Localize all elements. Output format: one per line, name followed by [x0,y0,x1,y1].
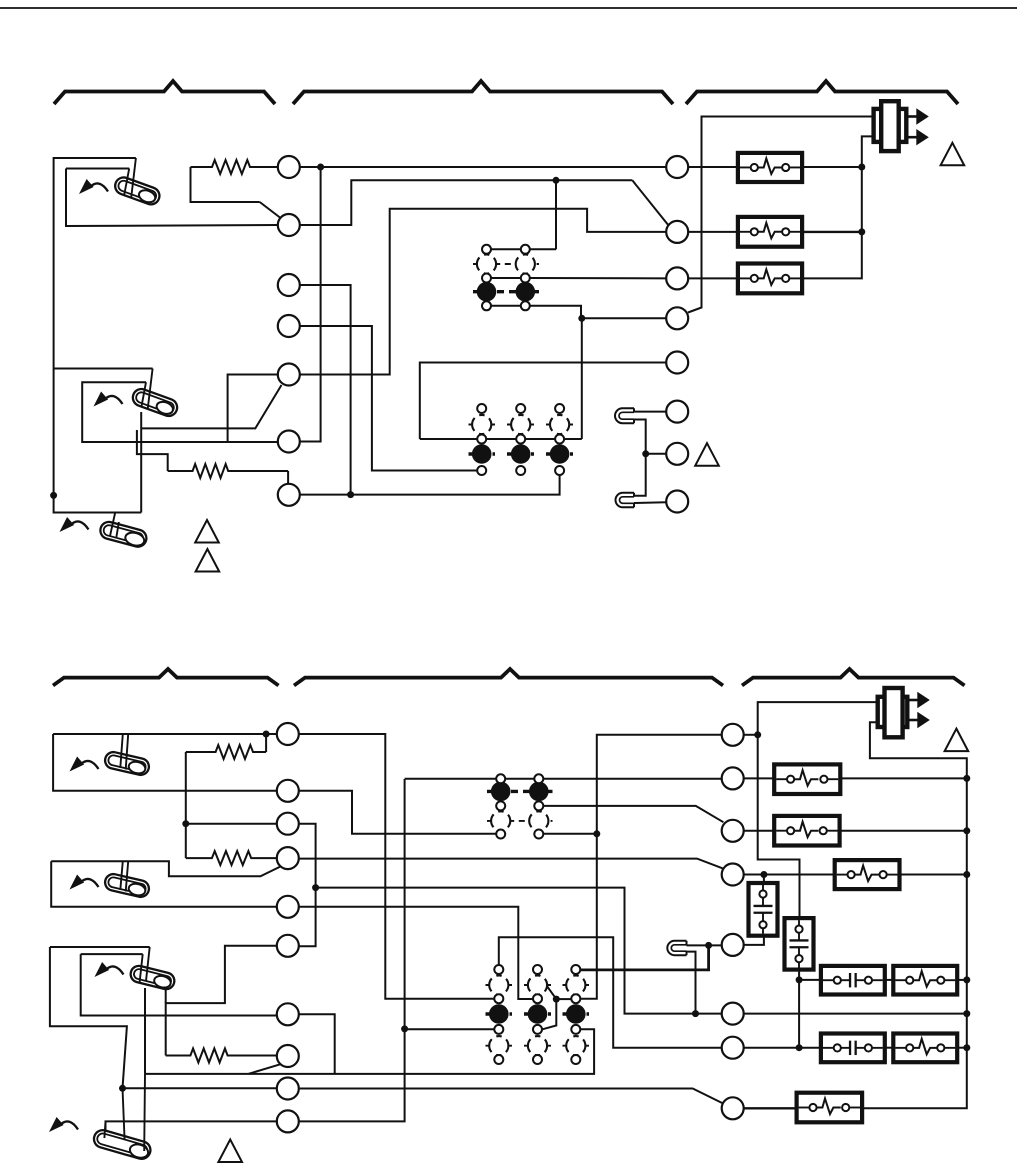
contact matrix M3 top row line + feed to terminal BR2 [405,778,722,780]
wire: dot drop to row2 dot [798,980,800,1048]
wire: switch2 inner box [82,382,278,442]
wire: riser to contact matrix1 top pins [555,180,557,249]
wire: blade diagonal into terminal R2 [632,180,669,226]
relay box B (bottom diagram) [893,966,957,995]
arrow: switch2 rotation [94,392,123,407]
wire: V1 bottom to terminal BR5 [744,936,764,945]
wire: terminal L1 row to terminal R1 [300,166,666,168]
terminal circle R8 (top diagram, x=677) [666,491,688,513]
wire: relay1 to bus [840,777,967,779]
wire: dot to matrix row5 left pin [405,1028,495,1030]
terminal circle R5 (top diagram, x=677) [666,352,688,374]
wire: switch2 top edge [54,368,153,370]
triangle note marker 4 (top diagram) [695,443,719,466]
terminal circle R3 (top diagram, x=677) [666,267,688,289]
terminal circle BR2 (bottom diagram, x=733) [722,767,744,789]
brace: thermostat section (top diagram) [54,81,275,104]
relay box 2 (bottom diagram) [774,816,839,846]
wire: W run continues to blade [556,179,632,181]
wire: dot down-right into switch3 [54,495,142,512]
terminal circle R1 (top diagram, x=677) [666,156,688,178]
junction dot at (581.8,318.3) [578,315,585,322]
page top border [0,7,1017,9]
junction dot at (763.9,874.5) [760,871,767,878]
junction dot at (596.8,833.8) [593,830,600,837]
heat relay box 3 (top diagram) [738,264,802,294]
wire: box B to bus [957,979,967,981]
wire: bR1 riser to dot [265,734,267,752]
contact matrix M1 dashed row connector [473,263,539,265]
wire: relay2 to bus [840,830,967,832]
wire: relay3 to bus [900,874,967,876]
wire: blade dot to row3 right pin [556,998,571,1000]
wire: bswitch1 left edge + bottom to terminal BL2 [53,734,277,791]
wire: box C to box D [885,1047,894,1049]
contact matrix M4 circles (bottom diagram) [489,965,586,1064]
terminal circle L1 (top diagram, x=289) [278,156,300,178]
resistor R1 (heat anticipator, top) [191,160,278,174]
wire: terminal BL6 left chain to resistor R3 [166,946,277,1056]
mercury switch 2 (top diagram) [130,387,179,419]
triangle note marker 1 (top diagram) [941,143,965,166]
triangle note marker (bottom diagram left) [218,1140,242,1163]
wire: M4 top-left pin riser over-down to terminal BR7 [499,937,722,1047]
wire: clip to terminal BR5 [687,944,722,946]
wire: terminal L3 down vertical B [300,285,351,495]
terminal circle R7 (top diagram, x=677) [666,443,688,465]
wire: BR7 to pair boxes row2 [744,1047,821,1049]
wire: BR6 row to bus [744,1013,967,1015]
wire: fan line across + riser to matrix row5 right pin [145,1029,594,1074]
contact matrix M3 filled row connector [487,790,553,793]
resistor R1 (bottom diagram) [186,745,266,759]
junction dot at (708.6,945.4) [705,942,712,949]
terminal circle L7 (top diagram, x=289) [278,484,300,506]
wire: M1 bottom pin over-down to dot [530,306,582,319]
wire: terminal L7 row to matrix2 bottom-right pin [300,471,560,495]
junction dot at (966.8,979.9) [963,976,970,983]
junction dot at (966.8,1047.7) [963,1044,970,1051]
wire: fan line left riser from switch3 [144,988,146,1074]
junction dot at (799.1,1047.7) [796,1044,803,1051]
wire: terminal BL4 across + blade to terminal BR4 [299,859,723,869]
wire: switch2 blob lead to R2 [137,430,168,471]
terminal circle BL1 (bottom diagram, x=288) [277,723,299,745]
wire: blade from switch2 to terminal L5 [141,385,281,428]
mercury switch 3 (bottom diagram) [129,964,176,991]
terminal circle L4 (top diagram, x=289) [278,315,300,337]
wire: switch1 inner left edge + bottom to terminal 2 [66,169,278,227]
wire: R2 terminal to heat relay 2 [688,231,738,233]
junction dot at (556,180.3) [553,177,560,184]
wire: relay1 to bus dot [802,166,862,168]
wire: matrix2 row-3 up to dot to terminal R4 [582,318,666,439]
junction dot at (861.8,167) [858,164,865,171]
contact matrix M3 circles (bottom diagram) [491,774,549,838]
wire: BR8 to relay 4 [744,1107,797,1109]
contactor box A (bottom diagram) [821,966,885,995]
triangle note marker 2 (top diagram) [195,520,219,543]
wire: R3 terminal to heat relay 3 [688,277,738,279]
jumper clip (bottom diagram) [667,941,686,955]
wire: V2 bottom to dot [798,970,800,980]
arrow: bswitch3 rotation [95,962,124,977]
arrow: bswitch2 rotation [70,875,99,890]
contact matrix M2 filled row connector [469,452,496,455]
relay box 4 (bottom diagram) [797,1093,863,1123]
wire: bswitch2 top edge + jog to terminal BL4 [51,861,280,876]
terminal circle R2 (top diagram, x=677) [666,221,688,243]
wire: terminal BL5 over-down to matrix middle pin [299,907,534,999]
heat relay box 1 (top diagram) [738,153,802,182]
terminal circle BL3 (bottom diagram, x=288) [277,813,299,835]
wire: bswitch3 blob lead to elbow [165,988,167,1003]
anticipator box V1 (bottom diagram) [749,883,778,936]
wire: terminal L2 up-over (W run) [300,180,556,225]
junction dot at (645.7,453.8) [642,450,649,457]
junction dot at (695.5,1013.6) [692,1010,699,1017]
contactor box C (bottom diagram) [821,1034,885,1063]
terminal circle L3 (top diagram, x=289) [278,274,300,296]
terminal circle BR7 (bottom diagram, x=733) [722,1037,744,1059]
jumper clip 2 (top diagram) [616,493,635,508]
wire: terminal BL3 left to dot [186,823,277,825]
terminal circle BL2 (bottom diagram, x=288) [277,780,299,802]
terminal circle BL6 (bottom diagram, x=288) [277,935,299,957]
wire: BR4 to relay 3 [744,874,835,876]
arrow: switch1 rotation [79,179,108,194]
contact matrix M2 dashed row connector [469,424,496,426]
wire: vertical A down to terminal L6 [300,167,321,442]
brace: thermostat section (bottom diagram) [53,669,279,686]
wire: clip2 to terminal R8 [634,501,666,504]
junction dot at (966.8,1013.6) [963,1010,970,1017]
mercury switch 1 (top diagram) [113,175,162,207]
wire: M1 row2 to terminal R3 [530,277,667,279]
arrow: switch3 rotation [60,517,89,532]
wire: dot drop into V1 box [763,875,765,884]
terminal circle BR1 (bottom diagram, x=733) [722,724,744,746]
wire: bswitch3 outer top edge [50,946,150,948]
terminal circle L5 (top diagram, x=289) [278,364,300,386]
wire: M3 bottom-right pin to V_a dot [543,833,597,835]
wire: terminal BL2 to matrix1 bottom-left pin [299,791,497,834]
junction dot at (315.6,887.6) [312,884,319,891]
contact matrix M4 filled row connectors [486,1012,513,1015]
wire: M3 row3 pin + blade to terminal BR3 [543,806,723,822]
wire: transformer return to right bus [862,722,967,1108]
brace: system section (top diagram) [686,81,958,104]
terminal circle BL10 (bottom diagram, x=288) [277,1110,299,1132]
mercury switch 3 (top diagram) [99,520,149,549]
wire: terminal BL7 elbow down to fan line [299,1014,335,1074]
brace: subbase section (top diagram) [293,81,673,104]
junction dot at (556.3,999.1) [553,996,560,1003]
contact matrix M2 (top diagram) row-3 line [420,438,582,440]
wire: box D to bus [957,1047,967,1049]
junction dot at (966.8,830.8) [963,827,970,834]
contact matrix M1 circles (top diagram) [477,245,535,310]
wire: bswitch3 inner top edge [81,953,143,955]
arrow: bswitch4 rotation [49,1117,78,1132]
junction dot at (861.8,231.9) [858,228,865,235]
mercury switch 4 (bottom diagram) [92,1128,153,1161]
terminal circle BR8 (bottom diagram, x=733) [722,1097,744,1119]
wire: dot to pair boxes row1 [799,979,821,981]
contact matrix M1 filled row connector [473,290,539,293]
wire: R2 right drop to terminal L7 [287,471,289,484]
wire: dot to terminal R7 [646,453,667,455]
wire: bswitch3 inner left + bottom to terminal BL7 [81,954,277,1015]
wire: transformer feed from terminal R4 blade [688,117,874,313]
junction dot at (404.6,1028.9) [401,1025,408,1032]
wire: clip lower arm jog down to dot [687,952,696,1014]
wire: box A to box B [885,979,894,981]
terminal circle BL9 (bottom diagram, x=288) [277,1078,299,1100]
wire: relay2 to bus dot [802,231,862,233]
junction dot at (122.5,1088.3) [119,1085,126,1092]
contact matrix M3 dashed row connector [487,820,553,822]
wire: terminal L4 over-down to matrix2 bottom-left pin [300,326,478,471]
relay box D (bottom diagram) [893,1034,957,1063]
terminal circle R6 (top diagram, x=677) [666,401,688,423]
jumper clip 1 (top diagram) [615,408,634,423]
wire: BR1 to dot [744,734,758,736]
terminal circle BR3 (bottom diagram, x=733) [722,820,744,842]
terminal circle BL7 (bottom diagram, x=288) [277,1003,299,1025]
wire: B net across to terminal BR6 [316,888,722,1014]
junction dot at (350.6,494.6) [347,491,354,498]
contact matrix M4 dashed row connectors [486,984,513,986]
junction dot at (53.6,495.4) [50,492,57,499]
wire: switch1 outer enclosure left+top [54,158,136,495]
wire: R1 left drop to selector [191,167,260,202]
junction dot at (266.1,734) [263,731,270,738]
mercury switch 1 (bottom diagram) [103,750,150,776]
relay box 1 (bottom diagram) [774,764,840,794]
terminal circle BL5 (bottom diagram, x=288) [277,896,299,918]
contact matrix M4 blade path [538,973,557,1030]
transformer (top diagram) [874,101,929,151]
junction dot at (320.6,167) [317,164,324,171]
resistor R2 (bottom diagram) [186,851,277,865]
terminal circle BL8 (bottom diagram, x=288) [277,1045,299,1067]
terminal circle R4 (top diagram, x=677) [666,307,688,329]
wire: terminal BL9 row to dot [123,1087,277,1089]
resistor R3 (bottom diagram) [166,1049,277,1063]
wire: clip1 to terminal R6 [634,411,666,413]
triangle note marker 3 (top diagram) [196,549,220,572]
wire: BR3 to relay 2 [744,830,775,832]
junction dot at (966.8,874.5) [963,871,970,878]
wire: switch2 branch up to terminal L5 [228,375,278,443]
arrow: bswitch1 rotation [70,757,99,772]
wire: terminal BL10 right riser (G net) [299,779,405,1121]
wire: bswitch2 left edge + bottom to terminal BL5 [51,861,277,907]
wire: terminal BL1 right-down to matrix row3 left pin [299,734,495,999]
wire: matrix2 row-3 riser to terminal R5 [420,363,666,440]
wire: dot drop to V2 box [758,735,800,918]
wire: blade diagonal into terminal BL8 [249,1064,281,1074]
terminal circle BR6 (bottom diagram, x=733) [722,1003,744,1025]
wire: M4 top-right pin to jumper riser [580,945,709,970]
junction dot at (966.8,778.4) [963,775,970,782]
wire: switch2 output down to switch3 [140,412,142,513]
wire: switch1 inner top edge [66,168,129,170]
terminal circle BR4 (bottom diagram, x=733) [722,864,744,886]
wire: bswitch1 top edge to terminal BL1 [53,733,277,735]
wire: bR1 left drop (with mid dot) [185,752,187,858]
mercury switch 2 (bottom diagram) [103,872,150,898]
relay box 3 (bottom diagram) [835,860,900,889]
wire: selector blade to terminal 2 [260,202,281,218]
brace: system section (bottom diagram) [742,669,965,686]
resistor R2 (top diagram) [168,464,288,478]
anticipator box V2 (bottom diagram) [785,918,814,970]
wire: BR2 to relay 1 [744,777,775,779]
junction dot at (185.8,823.7) [182,820,189,827]
terminal circle L6 (top diagram, x=289) [278,431,300,453]
triangle note marker (bottom diagram right) [945,729,969,752]
wire: relay3 to transformer return [802,136,874,278]
contact matrix M2 circles (top diagram) [472,404,569,475]
heat relay box 2 (top diagram) [738,217,802,247]
wire: dot riser to transformer [758,702,878,735]
terminal circle BL4 (bottom diagram, x=288) [277,847,299,869]
wire: V_a riser BR1/matrix [580,735,722,999]
terminal circle L2 (top diagram, x=289) [278,214,300,236]
junction dot at (757.7,734.8) [754,731,761,738]
junction dot at (799.1,979.9) [796,976,803,983]
wire: terminal BL3 right-down (B net) [299,824,316,947]
wire: clip1 lower arm jog down [634,420,646,496]
wire: terminal BL9 across + blade to terminal BR8 [299,1089,724,1104]
terminal circle BR5 (bottom diagram, x=733) [722,934,744,956]
transformer (bottom diagram) [878,688,930,737]
wire: terminal L5 up-over to terminal R2 [300,209,666,375]
brace: subbase section (bottom diagram) [294,669,723,686]
wire: R1 terminal to heat relay 1 [688,166,738,168]
wire: bswitch3 left edge + bottom [50,947,127,1088]
contact matrix M1 (top diagram) row lines [487,248,557,250]
wire: terminal BL10 to switch4 [106,1121,277,1132]
